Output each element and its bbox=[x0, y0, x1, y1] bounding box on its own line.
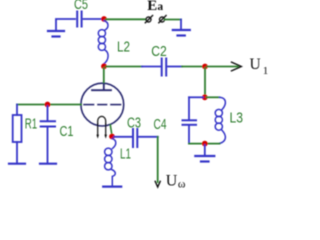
svg-text:L2: L2 bbox=[117, 40, 130, 56]
capacitor C3 bbox=[133, 129, 137, 147]
capacitor C1 bbox=[40, 106, 56, 164]
svg-text:L1: L1 bbox=[120, 147, 131, 163]
svg-text:C1: C1 bbox=[60, 124, 74, 140]
terminal Ea left bbox=[145, 16, 152, 23]
svg-text:Uω: Uω bbox=[166, 172, 186, 190]
svg-text:C2: C2 bbox=[151, 44, 167, 60]
wire C2 to node C bbox=[168, 66, 182, 68]
resistor R1 bbox=[9, 105, 25, 164]
tube filament cathode with arrows bbox=[96, 116, 107, 138]
wire node C down to tank bbox=[204, 68, 206, 96]
svg-text:C5: C5 bbox=[74, 0, 88, 13]
wire node A to terminal bbox=[106, 18, 146, 20]
wire cathode to node G bbox=[110, 125, 112, 135]
node B (L2 bottom) bbox=[101, 63, 107, 69]
svg-text:C4: C4 bbox=[154, 117, 167, 133]
wire node C to arrow U1 bbox=[207, 66, 238, 68]
node G (cathode junction) bbox=[109, 134, 115, 140]
tube grid (dashed) bbox=[84, 104, 121, 106]
wire node B down to tube anode bbox=[103, 68, 105, 84]
svg-text:U1: U1 bbox=[250, 56, 269, 77]
capacitor C2 bbox=[162, 59, 167, 76]
wire node G to C3 bbox=[114, 136, 131, 138]
node D (tank top) bbox=[202, 94, 208, 100]
inductor L1 bbox=[103, 139, 121, 187]
terminal Ea right bbox=[159, 16, 166, 23]
tube anode plate bbox=[92, 84, 111, 90]
wire node B to C2 bbox=[106, 66, 142, 68]
node C (output junction) bbox=[202, 64, 208, 70]
wire C5 to node A bbox=[84, 18, 104, 20]
wire C3 to corner bbox=[139, 136, 158, 138]
wire terminal to ground corner bbox=[165, 19, 181, 21]
svg-text:Ea: Ea bbox=[147, 0, 163, 14]
wire ground to C5 bbox=[56, 18, 75, 20]
wire tank top left bbox=[189, 96, 203, 98]
inductor L2 bbox=[98, 21, 108, 64]
ground tank bbox=[195, 145, 214, 162]
ground top-left bbox=[48, 20, 64, 37]
wire grid to RC network bbox=[17, 104, 81, 106]
svg-text:L3: L3 bbox=[230, 111, 244, 127]
arrow Uw bbox=[155, 181, 160, 187]
wire tank top right bbox=[207, 96, 220, 98]
node E (tank bottom) bbox=[202, 141, 208, 147]
inductor L3 bbox=[215, 97, 225, 143]
svg-text:C3: C3 bbox=[127, 116, 141, 132]
tube V1 envelope bbox=[81, 83, 124, 126]
ground top-right bbox=[173, 20, 190, 36]
capacitor C5 bbox=[77, 12, 81, 27]
wire corner down to Uw arrow bbox=[157, 137, 159, 182]
wire tank bottom bbox=[189, 143, 220, 145]
node A (top junction) bbox=[101, 16, 107, 22]
svg-text:R1: R1 bbox=[25, 117, 38, 133]
node F (grid network junction) bbox=[45, 102, 51, 108]
capacitor C4 bbox=[183, 97, 197, 143]
arrow U1 bbox=[232, 62, 242, 71]
